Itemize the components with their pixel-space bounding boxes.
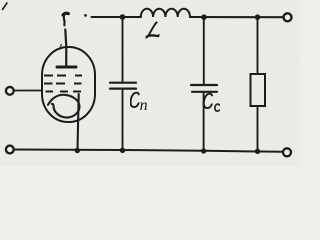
print artifact tick xyxy=(60,45,61,50)
label Cс xyxy=(204,94,220,111)
resistor R body xyxy=(251,74,266,106)
node junction top Cc xyxy=(201,14,207,20)
wire bottom rail xyxy=(14,150,282,152)
node junction bottom R xyxy=(255,149,260,154)
cathode dashes row 1 xyxy=(44,75,82,77)
node junction bottom tube xyxy=(75,148,80,153)
node junction top R xyxy=(255,14,261,20)
label L xyxy=(146,22,159,37)
capacitor Cn wire lower xyxy=(122,90,124,151)
anode plate bar xyxy=(57,66,76,69)
wire after coil xyxy=(190,16,283,18)
resistor R wire lower xyxy=(257,106,259,151)
cathode dashes row 3 xyxy=(46,91,82,93)
cathode dashes row 2 xyxy=(44,83,82,85)
label Cп xyxy=(131,93,139,107)
wire input top to tube xyxy=(14,90,42,92)
capacitor Cn bottom plate xyxy=(110,87,136,89)
node junction bottom Cn xyxy=(120,148,125,153)
anode lead hook (faded print) xyxy=(63,13,68,15)
capacitor Cn top plate xyxy=(110,82,136,84)
capacitor Cn wire upper xyxy=(122,19,124,82)
output terminal top right xyxy=(284,13,292,21)
capacitor Cc top plate xyxy=(191,84,217,86)
resistor R wire upper xyxy=(257,19,259,74)
input terminal top (left upper) xyxy=(6,87,14,95)
capacitor Cc wire lower xyxy=(203,93,205,151)
svg-text:п: п xyxy=(140,97,148,114)
node junction bottom Cc (ring) xyxy=(201,148,206,153)
input terminal bottom (left lower) xyxy=(6,146,14,154)
output terminal bottom right xyxy=(283,148,291,156)
inductor L coil xyxy=(141,9,190,17)
cathode lead down xyxy=(78,94,79,150)
filament loop xyxy=(48,95,80,118)
node junction top Cn xyxy=(120,14,126,20)
capacitor Cc wire upper xyxy=(203,19,205,84)
corner tick mark xyxy=(3,3,8,10)
tube Л envelope xyxy=(42,47,95,122)
anode lead inside tube xyxy=(65,30,66,68)
wire top rail xyxy=(92,16,141,18)
capacitor Cc bottom plate xyxy=(192,91,217,93)
wire top rail fragment dot xyxy=(84,14,87,17)
